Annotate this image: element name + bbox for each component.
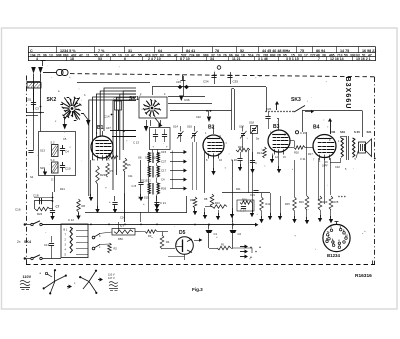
svg-text:S21: S21 [367,130,372,134]
svg-text:C18: C18 [33,194,39,198]
svg-text:38: 38 [322,54,326,58]
ground cluster arrows [203,208,234,220]
svg-text:95: 95 [112,54,116,58]
capacitor C2 [230,225,242,248]
terminal C29 [295,131,306,135]
output transformer [338,136,357,161]
resistor R18 [299,132,309,224]
label B4 [313,125,320,131]
svg-text:B1: B1 [97,125,104,131]
resistor R7 [106,163,114,177]
svg-text:C27: C27 [161,160,167,164]
wire left box top [26,113,44,116]
label B3 [273,124,280,130]
resistor R14 [257,147,266,158]
line box bottom [85,196,187,213]
svg-text:6: 6 [124,57,126,61]
capacitor C19 [114,97,122,132]
svg-text:R3: R3 [148,234,152,238]
svg-text:R19: R19 [323,200,328,204]
svg-text:C36: C36 [184,98,190,102]
pin labels B3 [270,131,289,137]
svg-text:C2: C2 [238,232,242,236]
wire B2 anode up [213,126,215,134]
svg-text:724: 724 [189,54,195,58]
svg-text:C15: C15 [161,150,167,154]
svg-text:127 V: 127 V [108,276,115,280]
svg-text:18: 18 [70,57,74,61]
connector arrow R26 [161,187,187,191]
svg-text:Fig.3: Fig.3 [192,287,203,292]
wire coil column down [28,110,54,192]
coil S2 (hatched box) [40,141,58,157]
pin labels B4 [315,137,331,142]
svg-text:R4: R4 [166,240,170,244]
trimmer S16 [187,125,198,143]
capacitor C28 [250,152,257,173]
svg-text:C 21: C 21 [160,201,166,205]
svg-text:R21: R21 [60,187,65,191]
IF transformer S11/S12 [141,166,159,183]
pin labels B1 [92,132,108,162]
voltage selector diagram 1 [40,269,73,294]
tube D5 [176,237,194,255]
svg-text:C 27: C 27 [240,209,246,213]
svg-text:1234 5 %: 1234 5 % [60,49,76,53]
wire top right [302,111,363,138]
chassis border top (dashed) [70,74,375,77]
resistor R20 [285,146,313,155]
capacitor C4 [60,145,69,155]
svg-text:C34: C34 [203,80,209,84]
label R11 [236,187,241,191]
svg-text:S16: S16 [187,125,192,129]
svg-text:C3: C3 [35,107,39,111]
svg-text:908: 908 [56,54,62,58]
svg-text:S17: S17 [239,125,244,129]
label 2x SK4 [17,240,31,244]
svg-text:+: + [255,250,257,254]
model number B3X66U [344,77,351,110]
svg-text:10: 10 [217,54,221,58]
svg-text:SK4: SK4 [24,240,31,244]
svg-text:R27: R27 [108,152,113,156]
svg-text:28: 28 [277,54,281,58]
rotary switch SK2 [47,97,91,130]
connector arrow C27 [161,160,187,164]
svg-text:+: + [109,200,111,204]
svg-text:C 12: C 12 [68,218,74,222]
svg-text:C1: C1 [214,232,218,236]
ground arrow below B1 left [89,160,93,201]
frame around input coils [39,132,76,176]
ruler row 1 numbers [30,47,376,61]
loudspeaker [359,139,372,157]
svg-text:C 29: C 29 [300,131,306,135]
wire arrows feed [172,151,174,189]
capacitor C7 [50,192,60,220]
rotary switch SK1 [129,96,167,128]
drawing number R16316 [355,273,372,279]
svg-text:C19: C19 [114,97,120,101]
svg-text:C7: C7 [56,205,60,209]
wire B3 left drop [250,133,259,212]
svg-text:R7: R7 [110,169,114,173]
svg-text:SK1: SK1 [129,96,139,102]
svg-text:R14: R14 [257,151,262,155]
svg-text:C13: C13 [44,243,50,247]
svg-text:53: 53 [98,57,102,61]
svg-text:R26: R26 [161,187,167,191]
svg-text:44 45 46 48 MHz: 44 45 46 48 MHz [262,49,290,53]
resistor R2 [108,243,118,253]
svg-text:+: + [259,246,261,250]
svg-text:C22: C22 [196,115,201,119]
capacitor C51 [26,88,36,110]
svg-text:S.7: S.7 [120,224,124,228]
tube socket B1234 view [323,222,350,252]
svg-text:16PF: 16PF [322,165,328,168]
wire trimmer drops [193,142,197,190]
svg-text:B3X66U: B3X66U [344,77,351,110]
svg-text:C14: C14 [104,115,110,119]
label C33 [176,80,181,84]
capacitor C25 [109,196,118,213]
svg-text:S13: S13 [40,149,45,153]
svg-text:C23: C23 [250,193,255,197]
wire IF col down [149,163,157,183]
capacitor C12 [68,212,81,222]
label 110V [23,275,32,279]
IF transformer S9/S10 [148,150,159,164]
switch contact b [92,234,101,239]
mains transformer box [61,224,88,258]
label C24 [120,216,125,220]
wire B3 anode up [277,119,279,131]
plus marks [338,195,346,199]
svg-text:969: 969 [203,54,209,58]
arrow up B4 [328,118,332,134]
svg-text:4: 4 [36,57,38,61]
svg-text:+: + [250,246,252,250]
wire r22 links [34,197,53,199]
resistor R25 [329,196,339,223]
antenna terminal [41,61,46,67]
label Fig.3 [192,287,203,292]
svg-text:3r: 3r [106,159,108,162]
svg-text:C11: C11 [128,174,133,178]
ground below B3 left [270,154,274,164]
wire B2 bottom bus [222,150,270,222]
switch SK3 [265,106,314,114]
svg-text:17: 17 [304,54,308,58]
wire B1 anode up [102,131,104,136]
dial lamp pair [57,70,69,76]
svg-text:8 7 10: 8 7 10 [180,57,190,61]
terminal circle [217,66,221,70]
trimmer S14 [173,125,184,143]
wire c2 r12 link [232,221,234,225]
resistor R23 [96,166,106,184]
svg-text:0PF: 0PF [284,134,289,137]
label R17 [308,152,313,156]
svg-text:393: 393 [350,54,356,58]
svg-text:R16316: R16316 [355,273,372,279]
svg-text:26: 26 [223,54,227,58]
labels S6 S9 S10 [138,156,157,160]
svg-text:R25: R25 [334,200,339,204]
svg-text:7 %: 7 % [98,49,105,53]
svg-text:78: 78 [215,49,219,53]
label C16 [15,208,21,212]
connector arrow C17 [161,169,187,173]
svg-text:R1: R1 [221,243,225,247]
switch contact c [92,245,101,250]
resistor R9 [190,197,197,215]
mains symbol [20,281,30,290]
svg-text:96: 96 [43,54,47,58]
capacitor C34 [203,72,217,84]
wire B2 left drop [204,152,206,193]
svg-text:18: 18 [241,54,245,58]
arrow below SK1 [144,120,149,132]
svg-text:C 13: C 13 [133,141,139,145]
ruler row 2 numbers [30,54,372,58]
svg-text:42: 42 [79,54,83,58]
capacitor C8 [132,160,144,201]
capacitor C22 arrow [207,111,211,122]
svg-text:B1234: B1234 [327,253,340,258]
svg-text:R2: R2 [114,247,118,251]
mains terminal 2 [24,257,26,259]
svg-text:S6: S6 [138,156,142,160]
resistor R22 [35,201,53,216]
svg-text:10: 10 [118,54,122,58]
connector arrow C4 [161,178,187,182]
svg-text:S.4: S.4 [51,158,55,162]
capacitor C27b [237,200,254,213]
svg-text:R15: R15 [285,202,290,206]
label C11 [128,174,133,178]
svg-text:C10: C10 [65,167,71,171]
svg-text:2 4 7 10: 2 4 7 10 [148,57,161,61]
svg-text:C24: C24 [120,216,125,220]
voltage selector diagram 2 [74,270,103,294]
wire down right corner [233,248,252,253]
resistor R10 [205,201,227,208]
label B1 [97,125,111,131]
capacitor inside can 1 [153,129,159,149]
capacitor inside can 2 [162,129,168,149]
svg-text:11: 11 [86,54,90,58]
svg-text:R11: R11 [236,187,241,191]
svg-text:R16: R16 [299,200,304,204]
svg-text:R5: R5 [127,163,131,167]
wire speaker bottom [330,150,359,163]
svg-text:SK3: SK3 [291,97,301,103]
svg-text:31: 31 [128,49,132,53]
svg-text:863: 863 [63,54,69,58]
voltage table [108,273,118,291]
svg-text:12 16 14: 12 16 14 [330,57,344,61]
wire IF can feeds [151,120,161,126]
wire AM bus [152,87,266,96]
svg-text:C4: C4 [65,150,69,154]
svg-text:S11S12: S11S12 [141,179,151,183]
svg-text:16 98 21: 16 98 21 [362,49,376,53]
bus line minus [42,224,255,226]
label C3 [35,106,41,111]
capacitor C36 [179,96,190,103]
wire bus feeders right [268,193,282,220]
svg-text:C32: C32 [335,165,340,169]
svg-text:C5: C5 [63,137,67,141]
resistor R15 [285,160,297,223]
resistor R27 [107,152,118,159]
capacitor C18 [33,194,53,205]
capacitor C26 [265,107,271,129]
svg-text:C30: C30 [330,130,336,134]
resistor R12 [259,193,271,223]
ground below B3 mid [275,154,286,174]
label C5 [63,137,67,141]
IF transformer S13/S15 [138,183,159,200]
svg-text:3 1 46: 3 1 46 [258,57,268,61]
scan speckle noise [37,66,365,260]
IF can frame [133,128,170,150]
svg-text:S19: S19 [340,130,345,134]
svg-text:3 5 1 15: 3 5 1 15 [286,57,299,61]
label C22 [196,115,201,119]
B4 pin labels [313,159,328,168]
wire d5 bottom [168,255,185,261]
svg-text:R23: R23 [100,173,106,177]
pin labels B2 [205,132,222,138]
connector arrow C15 [161,150,187,154]
wire ps links [99,232,112,245]
svg-text:50: 50 [344,54,348,58]
trimmer S18 [249,121,259,141]
svg-text:52: 52 [240,49,244,53]
svg-text:86 94: 86 94 [316,49,326,53]
label a b SK2 [55,90,86,123]
coil S3 (hatched box) [40,158,58,173]
mains terminal 1 [24,223,26,225]
wire R5 down [124,172,126,222]
capacitor C10 [60,162,71,172]
svg-text:61: 61 [106,54,110,58]
resistor R1 [209,243,233,250]
wire AM drop [266,87,268,112]
svg-text:C17: C17 [161,169,167,173]
wire B4 pins down [319,158,331,204]
labels C30 S19 [330,130,345,134]
antenna arrow 1 [31,67,36,110]
svg-text:S14: S14 [173,125,178,129]
svg-text:C 8: C 8 [132,184,137,188]
svg-text:C16: C16 [15,208,21,212]
label C32 [335,165,340,169]
node C14 [104,114,112,119]
arrow from D5 [194,238,202,242]
tube B3 [268,130,290,155]
svg-text:AF7: AF7 [106,126,111,130]
svg-text:41: 41 [174,54,178,58]
chassis border bottom (dashed) [26,261,375,265]
svg-text:C35: C35 [233,80,239,84]
resistor R4 [160,232,175,250]
wire bundle SK2 outputs [89,88,136,196]
switch SK4 pole 2 [25,255,61,260]
svg-text:30: 30 [167,54,171,58]
label C25b [143,202,145,206]
svg-text:C: C [255,161,257,165]
svg-text:88: 88 [196,54,200,58]
chassis border right (dash-dot) [374,77,376,265]
label R21 [60,187,65,191]
wire top bundle [77,82,150,84]
svg-text:514: 514 [248,54,254,58]
wire ifcans to bus [149,195,160,213]
capacitor C35 [227,72,238,84]
wire bundle SK1 left [113,91,136,190]
svg-text:13: 13 [49,54,53,58]
wire SK1 out 2 [168,103,212,105]
coil S1 (hatched box) [27,82,42,89]
svg-text:7: 7 [318,57,320,61]
tube B1 [91,136,113,161]
label C37 [300,157,306,161]
ground below B2 [206,157,222,176]
svg-text:R12: R12 [266,202,271,206]
svg-text:S.2: S.2 [51,141,55,145]
transformer taps [76,231,88,255]
svg-text:R22: R22 [37,212,43,216]
resistor R6 [77,199,86,212]
svg-text:47: 47 [131,54,135,58]
resistor R24h [236,145,250,152]
resistor R5 [123,158,131,172]
svg-text:S 20: S 20 [354,130,360,134]
resistor R50 shielded [112,224,135,241]
svg-text:R10: R10 [215,201,220,205]
transformer winding [64,227,73,257]
tube B2 [203,135,224,159]
junction diamonds [178,76,189,96]
labels S20 S21 [354,130,372,134]
svg-text:+: + [143,202,145,206]
resistor R3 [135,230,168,238]
svg-text:B 1: B 1 [64,229,68,232]
label 1 2 sk1 [140,93,166,96]
svg-text:S13 S15: S13 S15 [138,196,149,200]
wire lower verticals [119,193,141,232]
svg-text:R8: R8 [204,197,208,201]
switch SK4 pole 1 [25,221,61,226]
label D5 [179,230,186,236]
chassis border left (dash-dot) [26,76,28,266]
svg-text:84 41: 84 41 [186,49,195,53]
wire pair to B2 [232,89,235,131]
svg-text:2×: 2× [17,240,21,244]
wire trimmer S17 drop [242,142,244,150]
svg-text:104: 104 [30,54,36,58]
svg-text:75: 75 [300,49,304,53]
svg-text:110V: 110V [23,275,32,279]
label 16f [345,168,347,171]
trimmer S17 [239,125,247,143]
tube B4 [313,135,336,161]
